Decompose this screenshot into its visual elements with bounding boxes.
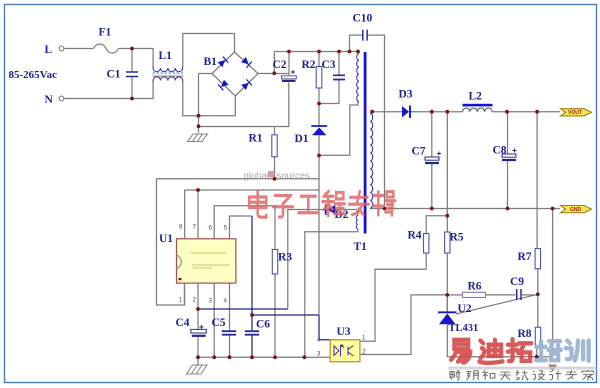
- svg-text:B1: B1: [204, 56, 218, 68]
- svg-text:VOUT: VOUT: [568, 110, 582, 116]
- svg-text:7: 7: [193, 224, 197, 231]
- svg-text:D1: D1: [295, 133, 309, 145]
- svg-text:4: 4: [224, 298, 228, 305]
- svg-text:L1: L1: [159, 50, 173, 62]
- svg-text:2: 2: [193, 297, 197, 304]
- svg-text:3: 3: [317, 351, 321, 358]
- svg-text:85-265Vac: 85-265Vac: [9, 69, 58, 81]
- svg-text:C2: C2: [273, 59, 287, 71]
- svg-text:6: 6: [209, 225, 213, 232]
- svg-text:R7: R7: [518, 251, 532, 263]
- svg-text:C5: C5: [212, 317, 226, 329]
- svg-text:1: 1: [179, 297, 183, 304]
- svg-text:F1: F1: [99, 27, 112, 39]
- svg-text:5: 5: [224, 225, 228, 232]
- svg-text:U1: U1: [159, 233, 173, 245]
- svg-text:C1: C1: [107, 69, 121, 81]
- svg-text:C6: C6: [256, 319, 270, 331]
- svg-text:C10: C10: [353, 13, 373, 25]
- svg-text:L2: L2: [469, 91, 483, 103]
- svg-text:4: 4: [317, 337, 321, 344]
- svg-text:2: 2: [362, 349, 366, 356]
- svg-text:L: L: [45, 44, 53, 56]
- svg-text:GND: GND: [570, 207, 582, 213]
- svg-text:R1: R1: [249, 133, 263, 145]
- svg-text:C3: C3: [322, 59, 336, 71]
- svg-text:R3: R3: [278, 252, 292, 264]
- svg-text:3: 3: [209, 298, 213, 305]
- svg-text:TL431: TL431: [449, 323, 479, 334]
- svg-text:C4: C4: [176, 317, 190, 329]
- svg-text:sources: sources: [277, 171, 311, 182]
- svg-text:8: 8: [179, 224, 183, 231]
- svg-text:C7: C7: [412, 146, 426, 158]
- svg-text:1: 1: [362, 335, 366, 342]
- svg-text:R6: R6: [468, 281, 482, 293]
- svg-text:R8: R8: [518, 328, 532, 340]
- svg-text:T1: T1: [354, 241, 368, 253]
- svg-text:U3: U3: [337, 326, 351, 338]
- svg-text:D3: D3: [399, 89, 413, 101]
- svg-text:N: N: [45, 94, 54, 106]
- svg-text:C8: C8: [493, 145, 507, 157]
- svg-text:C9: C9: [510, 276, 524, 288]
- svg-text:global: global: [244, 171, 269, 182]
- svg-text:U2: U2: [458, 303, 472, 315]
- svg-text:R4: R4: [408, 230, 422, 242]
- svg-text:R2: R2: [302, 59, 316, 71]
- svg-text:R5: R5: [450, 232, 464, 244]
